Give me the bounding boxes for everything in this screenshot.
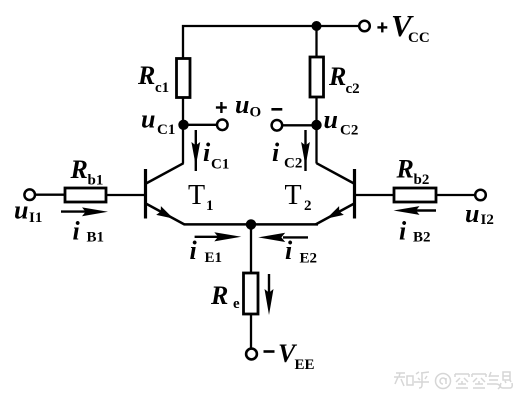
wire Rb1 to T1 base — [106, 194, 144, 196]
label Rb2 — [396, 155, 430, 189]
svg-text:b2: b2 — [414, 172, 430, 188]
svg-text:E1: E1 — [205, 250, 223, 266]
svg-text:R: R — [70, 155, 88, 184]
svg-text:R: R — [137, 61, 155, 90]
svg-text:u: u — [141, 105, 155, 134]
svg-text:T: T — [285, 180, 302, 211]
wire uC1 to uO+ terminal — [184, 124, 218, 126]
svg-text:T: T — [188, 180, 205, 211]
wire from rail junction to Rc2 — [315, 26, 317, 57]
resistor Rc2 — [310, 57, 324, 97]
wire emitter node to Re — [250, 224, 252, 273]
svg-text:i: i — [272, 138, 280, 167]
label iC2 — [272, 138, 302, 172]
label uI1 — [14, 196, 42, 227]
junction node on VCC rail — [312, 21, 322, 31]
resistor Rb2 — [394, 188, 436, 202]
label uC2 — [324, 105, 359, 139]
arrow Re current — [265, 274, 274, 315]
label uC1 — [141, 105, 175, 139]
label uI2 — [465, 199, 494, 228]
terminal uO+ — [217, 120, 228, 131]
terminal uI1 — [24, 189, 35, 200]
label Rb1 — [70, 155, 104, 189]
label iE2 — [285, 236, 317, 267]
svg-text:u: u — [235, 90, 249, 119]
terminal -VEE — [246, 349, 257, 360]
svg-text:I2: I2 — [481, 212, 494, 228]
resistor Rc1 — [177, 59, 191, 98]
transistor T2 — [316, 125, 355, 225]
svg-text:B2: B2 — [413, 230, 431, 246]
svg-text:2: 2 — [304, 198, 312, 214]
terminal uI2 — [475, 190, 486, 201]
svg-text:C2: C2 — [340, 123, 358, 139]
label iB2 — [399, 217, 431, 246]
label iC1 — [203, 138, 229, 173]
svg-text:c1: c1 — [155, 80, 169, 96]
label T2 — [285, 180, 312, 214]
node uC2 — [311, 120, 321, 130]
svg-text:E2: E2 — [300, 251, 318, 267]
svg-text:C1: C1 — [211, 157, 229, 173]
svg-text:i: i — [73, 217, 81, 246]
svg-text:R: R — [328, 62, 346, 91]
wire uO- terminal to uC2 — [282, 124, 316, 126]
svg-text:EE: EE — [295, 357, 315, 373]
wire T2 base to Rb2 — [356, 194, 394, 196]
terminal uO- — [272, 120, 283, 131]
label Rc1 — [137, 61, 169, 96]
svg-text:R: R — [210, 281, 228, 310]
wire Rc2 to node uC2 — [315, 97, 317, 125]
svg-text:b1: b1 — [88, 173, 104, 189]
wire Re to -VEE terminal — [250, 314, 252, 349]
label iE1 — [190, 236, 223, 266]
arrow iB1 — [61, 207, 108, 216]
svg-text:i: i — [203, 138, 211, 167]
label Rc2 — [328, 62, 360, 97]
svg-text:R: R — [396, 155, 414, 184]
svg-text:O: O — [250, 105, 262, 121]
svg-text:c2: c2 — [346, 81, 360, 97]
label T1 — [188, 180, 214, 214]
watermark zhihu — [394, 372, 512, 389]
arrow iC1 — [191, 130, 200, 171]
resistor Rb1 — [65, 188, 106, 202]
svg-text:e: e — [233, 296, 240, 312]
resistor Re — [244, 273, 259, 314]
arrow iE1 — [195, 232, 242, 241]
svg-text:u: u — [14, 196, 28, 225]
node emitter junction — [246, 219, 256, 229]
svg-text:C1: C1 — [157, 122, 175, 138]
arrow iB2 — [394, 206, 437, 215]
svg-text:B1: B1 — [87, 230, 105, 246]
label +VCC — [377, 8, 429, 46]
arrow iC2 — [301, 130, 310, 171]
svg-text:I1: I1 — [29, 210, 42, 226]
wire top rail VCC — [183, 26, 359, 59]
svg-text:u: u — [465, 199, 479, 228]
label + (uO polarity) — [216, 102, 227, 113]
svg-text:u: u — [324, 105, 338, 134]
node uC1 — [178, 120, 188, 130]
svg-text:i: i — [285, 236, 293, 265]
transistor T1 — [146, 125, 185, 225]
wire Rc1 to node uC1 — [182, 98, 184, 126]
svg-text:i: i — [399, 217, 407, 246]
svg-text:1: 1 — [206, 198, 214, 214]
wire Rb2 to uI2 — [436, 194, 475, 196]
label uO — [235, 90, 261, 121]
label - (uO polarity) — [271, 108, 282, 111]
label iB1 — [73, 217, 105, 246]
svg-text:CC: CC — [408, 30, 430, 46]
label Re — [210, 281, 240, 312]
label -VEE — [264, 339, 315, 373]
svg-text:C2: C2 — [284, 156, 302, 172]
svg-text:i: i — [190, 236, 198, 265]
terminal +VCC — [359, 21, 370, 32]
wire uI1 to Rb1 — [35, 194, 65, 196]
wire emitter rail — [184, 223, 318, 226]
arrow iE2 — [258, 233, 308, 242]
